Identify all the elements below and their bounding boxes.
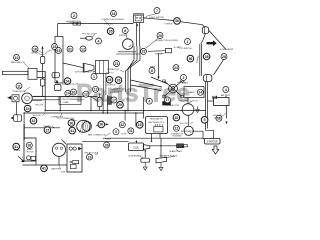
svg-text:RECTIFIER (12V): RECTIFIER (12V): [148, 122, 164, 124]
svg-text:14: 14: [66, 92, 70, 96]
svg-text:34: 34: [66, 79, 70, 83]
svg-text:3: 3: [115, 130, 117, 134]
svg-text:36: 36: [188, 57, 192, 61]
svg-text:YELLOW: YELLOW: [179, 123, 187, 125]
svg-text:1: 1: [187, 40, 189, 44]
svg-text:PURPLE: PURPLE: [104, 24, 113, 26]
svg-text:CONNECTOR HOUSING: CONNECTOR HOUSING: [155, 40, 178, 42]
svg-text:LIGHT SWITCH: LIGHT SWITCH: [149, 17, 164, 19]
svg-text:20: 20: [158, 34, 162, 38]
svg-text:35: 35: [109, 30, 113, 34]
svg-text:STARTER: STARTER: [207, 140, 218, 143]
svg-text:CONDENSER: CONDENSER: [128, 156, 141, 158]
svg-text:16: 16: [112, 12, 116, 16]
svg-text:41: 41: [70, 129, 74, 133]
svg-text:BLACK: BLACK: [14, 149, 21, 152]
svg-text:42: 42: [174, 116, 178, 120]
svg-text:MOTOR: MOTOR: [26, 152, 34, 154]
svg-text:5: 5: [204, 118, 206, 122]
svg-text:S.L. LIGHT: S.L. LIGHT: [49, 50, 59, 52]
svg-text:33: 33: [142, 50, 146, 54]
svg-text:14: 14: [198, 91, 202, 95]
svg-text:12: 12: [174, 127, 178, 131]
svg-text:12: 12: [81, 47, 85, 51]
svg-text:10: 10: [15, 56, 19, 60]
svg-text:2: 2: [73, 14, 75, 18]
svg-text:4: 4: [225, 88, 227, 92]
svg-text:SOLENOID: SOLENOID: [106, 84, 116, 86]
svg-text:20: 20: [118, 103, 122, 107]
svg-text:21: 21: [115, 62, 119, 66]
svg-text:ELECTRIC CLUTCH: ELECTRIC CLUTCH: [179, 100, 198, 102]
svg-text:38: 38: [205, 55, 209, 59]
svg-text:FUSE: FUSE: [150, 67, 156, 69]
svg-text:35: 35: [108, 78, 112, 82]
svg-text:+BATTERY: +BATTERY: [50, 168, 61, 171]
svg-text:19: 19: [88, 155, 92, 159]
svg-text:41: 41: [42, 167, 46, 171]
svg-text:BROWN: BROWN: [44, 126, 52, 128]
svg-text:31: 31: [14, 145, 18, 149]
svg-text:24: 24: [174, 66, 178, 70]
svg-text:BROWN: BROWN: [31, 53, 39, 55]
svg-text:12: 12: [84, 93, 88, 97]
svg-text:BATTERY: BATTERY: [221, 94, 231, 97]
svg-text:1: 1: [93, 75, 95, 79]
svg-text:30: 30: [69, 121, 73, 125]
svg-text:42: 42: [120, 123, 124, 127]
svg-text:26: 26: [105, 143, 109, 147]
svg-text:BLUE: BLUE: [122, 134, 128, 136]
svg-text:17: 17: [112, 98, 116, 102]
svg-text:SEAT CONNECTOR: SEAT CONNECTOR: [88, 133, 106, 136]
svg-text:SPARK PLUG: SPARK PLUG: [169, 150, 182, 153]
svg-text:JUMPER: JUMPER: [119, 35, 127, 37]
svg-text:COM: COM: [61, 171, 66, 173]
svg-text:16: 16: [27, 144, 31, 148]
svg-text:PartsTree: PartsTree: [76, 80, 190, 108]
svg-text:HOUSING: HOUSING: [173, 136, 182, 138]
svg-text:RELAY DIODE: RELAY DIODE: [85, 152, 99, 155]
svg-text:SEAT SWITCH: SEAT SWITCH: [10, 61, 25, 64]
svg-text:PURPLE: PURPLE: [164, 24, 173, 26]
svg-text:11: 11: [17, 84, 21, 88]
svg-text:FLASH: FLASH: [105, 138, 112, 141]
svg-text:REGULATOR: REGULATOR: [150, 118, 163, 121]
svg-text:CONNECTOR: CONNECTOR: [62, 84, 75, 86]
svg-text:TO P.T.O.: TO P.T.O.: [106, 72, 115, 74]
svg-text:34: 34: [26, 107, 30, 111]
svg-text:PTO IND. LIGHT: PTO IND. LIGHT: [82, 33, 98, 35]
svg-text:CABLE: CABLE: [188, 91, 195, 94]
svg-text:CONNECTOR HOUSING: CONNECTOR HOUSING: [101, 19, 124, 21]
svg-text:8: 8: [124, 29, 126, 33]
svg-text:COIL: COIL: [133, 145, 140, 149]
svg-text:CIRCUIT BREAKER: CIRCUIT BREAKER: [61, 98, 79, 101]
svg-text:CONNECTOR: CONNECTOR: [166, 105, 179, 107]
svg-text:SLIP-ON CONNECTOR: SLIP-ON CONNECTOR: [75, 71, 96, 73]
svg-text:PTO SWITCH: PTO SWITCH: [179, 48, 192, 50]
svg-text:42: 42: [32, 119, 36, 123]
svg-text:37: 37: [45, 128, 49, 132]
svg-text:4: 4: [148, 99, 150, 103]
svg-text:PURPLE: PURPLE: [155, 53, 163, 55]
svg-text:YELLOW: YELLOW: [32, 115, 40, 117]
svg-text:26: 26: [117, 79, 121, 83]
svg-text:YELLOW: YELLOW: [35, 105, 43, 107]
svg-text:17: 17: [166, 98, 170, 102]
svg-text:28: 28: [222, 55, 226, 59]
svg-text:16: 16: [33, 47, 37, 51]
svg-text:CONNECTOR: CONNECTOR: [51, 116, 64, 118]
svg-text:11: 11: [129, 129, 133, 133]
svg-text:HOUR METER: HOUR METER: [220, 49, 234, 51]
svg-text:TRIAD DIODE: TRIAD DIODE: [12, 90, 26, 93]
svg-text:4: 4: [98, 39, 100, 43]
svg-text:30: 30: [72, 90, 76, 94]
svg-text:2: 2: [183, 76, 185, 80]
svg-text:6: 6: [151, 69, 153, 73]
svg-text:BREAKER: BREAKER: [110, 91, 120, 94]
svg-text:CONNECTOR: CONNECTOR: [107, 69, 120, 71]
svg-text:CABLE: CABLE: [214, 117, 221, 120]
svg-text:31: 31: [68, 47, 72, 51]
svg-text:16: 16: [138, 123, 142, 127]
svg-text:CONNECTOR: CONNECTOR: [67, 21, 81, 23]
svg-text:36: 36: [175, 19, 179, 23]
svg-text:BREAKER POINTS: BREAKER POINTS: [160, 155, 178, 158]
svg-text:START: START: [27, 148, 34, 151]
svg-text:6 AMP: 6 AMP: [63, 101, 69, 104]
svg-text:13: 13: [94, 88, 98, 92]
svg-text:7: 7: [156, 9, 158, 13]
svg-text:BLACK: BLACK: [182, 82, 189, 85]
svg-text:26: 26: [99, 123, 103, 127]
